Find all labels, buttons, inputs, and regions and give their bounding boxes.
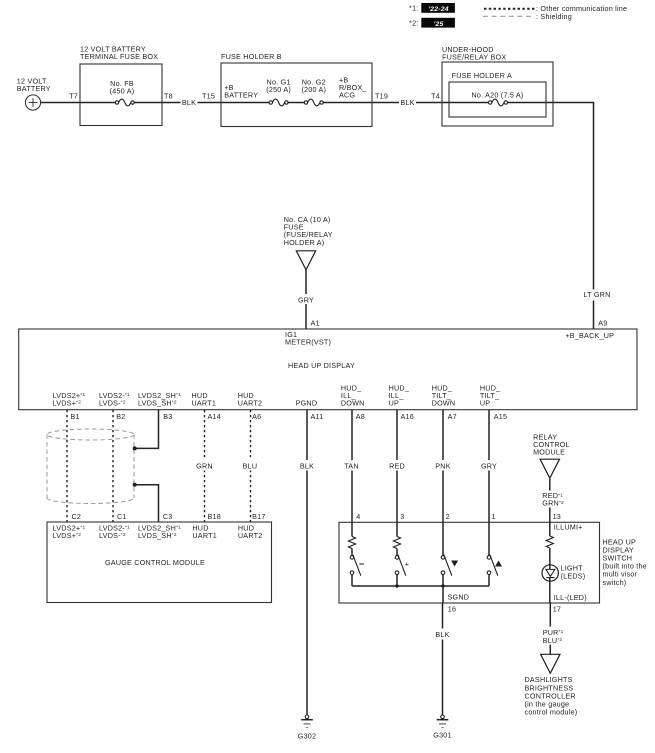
svg-text:1: 1 bbox=[492, 512, 496, 521]
svg-text:LVDS-*2: LVDS-*2 bbox=[99, 398, 126, 407]
svg-text:PGND: PGND bbox=[296, 398, 318, 407]
svg-text:BATTERY: BATTERY bbox=[224, 91, 258, 100]
svg-text:’25: ’25 bbox=[433, 21, 443, 28]
svg-text:17: 17 bbox=[553, 604, 561, 613]
svg-text:BLK: BLK bbox=[435, 630, 449, 639]
svg-text:UART1: UART1 bbox=[192, 398, 217, 407]
svg-text:A7: A7 bbox=[448, 412, 457, 421]
svg-text:LVDS_SH*2: LVDS_SH*2 bbox=[138, 531, 177, 540]
svg-text:BLK: BLK bbox=[400, 98, 414, 107]
svg-text:PNK: PNK bbox=[435, 462, 450, 471]
svg-text:METER(VST): METER(VST) bbox=[285, 338, 331, 347]
svg-text:control module): control module) bbox=[525, 708, 578, 717]
svg-text:B17: B17 bbox=[252, 512, 265, 521]
svg-text:SGND: SGND bbox=[448, 593, 470, 602]
svg-text:(LEDS): (LEDS) bbox=[561, 571, 586, 580]
svg-text:16: 16 bbox=[448, 604, 456, 613]
svg-text:ACG: ACG bbox=[339, 91, 355, 100]
svg-text:4: 4 bbox=[356, 512, 360, 521]
svg-text:ILL-(LED): ILL-(LED) bbox=[554, 593, 587, 602]
svg-text:A9: A9 bbox=[598, 319, 607, 328]
svg-text:UART2: UART2 bbox=[238, 531, 263, 540]
svg-text:13: 13 bbox=[553, 512, 561, 521]
svg-text:T7: T7 bbox=[69, 92, 78, 101]
svg-text:GRY: GRY bbox=[481, 462, 497, 471]
svg-text:A14: A14 bbox=[208, 412, 221, 421]
svg-text:ILLUMI+: ILLUMI+ bbox=[554, 523, 583, 532]
svg-text:TAN: TAN bbox=[344, 462, 359, 471]
svg-text:No. A20 (7.5 A): No. A20 (7.5 A) bbox=[471, 90, 523, 99]
svg-text:T4: T4 bbox=[431, 92, 440, 101]
svg-text:UP: UP bbox=[389, 398, 399, 407]
svg-text:switch): switch) bbox=[603, 578, 627, 587]
svg-text:LT GRN: LT GRN bbox=[583, 290, 610, 299]
svg-text:T19: T19 bbox=[375, 92, 388, 101]
svg-text:(200 A): (200 A) bbox=[301, 85, 326, 94]
svg-text:A15: A15 bbox=[494, 412, 507, 421]
svg-text:UART2: UART2 bbox=[238, 398, 263, 407]
svg-text:HOLDER A): HOLDER A) bbox=[284, 238, 325, 247]
svg-text:B2: B2 bbox=[116, 412, 125, 421]
svg-text:T8: T8 bbox=[164, 92, 173, 101]
svg-text:A1: A1 bbox=[311, 319, 320, 328]
svg-text:+: + bbox=[405, 559, 409, 568]
svg-text:A11: A11 bbox=[311, 412, 324, 421]
svg-text:GRY: GRY bbox=[298, 295, 314, 304]
svg-text:RED: RED bbox=[389, 462, 405, 471]
svg-text:MODULE: MODULE bbox=[533, 447, 565, 456]
svg-text:B1: B1 bbox=[71, 412, 80, 421]
svg-text:BATTERY: BATTERY bbox=[17, 84, 51, 93]
svg-text:A6: A6 bbox=[252, 412, 261, 421]
svg-text:FUSE/RELAY BOX: FUSE/RELAY BOX bbox=[442, 53, 506, 62]
svg-text:BLK: BLK bbox=[300, 462, 314, 471]
svg-text:BLU: BLU bbox=[243, 462, 258, 471]
svg-text:BLK: BLK bbox=[182, 98, 196, 107]
svg-text:(450 A): (450 A) bbox=[110, 87, 135, 96]
svg-text:3: 3 bbox=[400, 512, 404, 521]
svg-text:DOWN: DOWN bbox=[341, 398, 365, 407]
svg-text:UP: UP bbox=[480, 398, 490, 407]
svg-text:T15: T15 bbox=[202, 92, 215, 101]
svg-text:2: 2 bbox=[446, 512, 450, 521]
svg-text:GAUGE CONTROL MODULE: GAUGE CONTROL MODULE bbox=[105, 558, 205, 567]
svg-text:GRN: GRN bbox=[196, 462, 213, 471]
svg-text:FUSE HOLDER B: FUSE HOLDER B bbox=[221, 52, 282, 61]
svg-text:DOWN: DOWN bbox=[432, 398, 456, 407]
svg-text:G301: G301 bbox=[433, 731, 451, 740]
svg-text:C2: C2 bbox=[72, 512, 82, 521]
svg-text:+B_BACK_UP: +B_BACK_UP bbox=[565, 331, 614, 340]
svg-text:TERMINAL FUSE BOX: TERMINAL FUSE BOX bbox=[80, 52, 158, 61]
svg-text:HEAD UP DISPLAY: HEAD UP DISPLAY bbox=[288, 361, 355, 370]
svg-text:A8: A8 bbox=[356, 412, 365, 421]
svg-text:(250 A): (250 A) bbox=[266, 85, 291, 94]
svg-text:G302: G302 bbox=[298, 732, 316, 741]
svg-text:LVDS+*2: LVDS+*2 bbox=[53, 398, 82, 407]
svg-text:: Shielding: : Shielding bbox=[536, 12, 572, 21]
svg-text:*1:: *1: bbox=[409, 4, 418, 13]
svg-text:LVDS_SH*2: LVDS_SH*2 bbox=[138, 398, 177, 407]
svg-text:UART1: UART1 bbox=[192, 531, 217, 540]
svg-text:’22-24: ’22-24 bbox=[428, 6, 449, 13]
svg-text:A16: A16 bbox=[401, 412, 414, 421]
svg-text:FUSE HOLDER A: FUSE HOLDER A bbox=[452, 71, 512, 80]
svg-text:B3: B3 bbox=[163, 412, 172, 421]
svg-text:LVDS-*2: LVDS-*2 bbox=[99, 531, 126, 540]
svg-text:C3: C3 bbox=[163, 512, 173, 521]
svg-text:B18: B18 bbox=[208, 512, 221, 521]
svg-text:*2:: *2: bbox=[409, 18, 418, 27]
svg-text:C1: C1 bbox=[117, 512, 127, 521]
svg-text:LVDS+*2: LVDS+*2 bbox=[53, 531, 82, 540]
